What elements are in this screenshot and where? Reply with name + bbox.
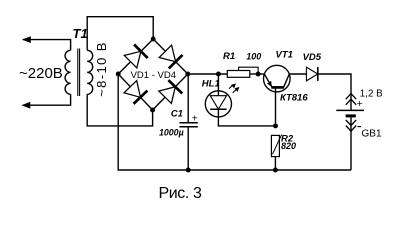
svg-text:R1: R1 xyxy=(223,51,235,62)
svg-text:C1: C1 xyxy=(171,109,183,120)
svg-text:+: + xyxy=(192,112,198,124)
svg-text:820: 820 xyxy=(281,141,296,151)
svg-text:VD1 - VD4: VD1 - VD4 xyxy=(131,70,176,81)
svg-text:1000µ: 1000µ xyxy=(159,127,184,137)
svg-text:GB1: GB1 xyxy=(362,128,382,139)
svg-text:VD5: VD5 xyxy=(303,52,322,63)
svg-text:100: 100 xyxy=(246,52,261,62)
svg-text:1,2 В: 1,2 В xyxy=(360,89,383,100)
svg-text:~220В: ~220В xyxy=(19,65,63,82)
svg-text:Рис. 3: Рис. 3 xyxy=(159,185,203,202)
svg-text:Т1: Т1 xyxy=(73,26,88,41)
svg-text:HL1: HL1 xyxy=(202,78,220,89)
svg-text:КТ816: КТ816 xyxy=(280,93,308,104)
svg-text:+: + xyxy=(357,98,363,110)
svg-text:~8-10 В: ~8-10 В xyxy=(94,41,109,97)
svg-text:VT1: VT1 xyxy=(276,50,293,61)
